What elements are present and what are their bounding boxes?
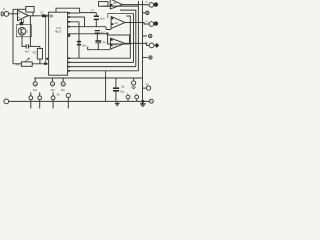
terminal bottom right [149,99,153,103]
pin 7 [68,70,70,72]
wire feedback column [45,16,47,64]
ground [116,101,118,103]
input terminal J1 [1,12,3,16]
pin number left [46,58,48,60]
potentiometer P1 [21,62,32,66]
wire input to op-amp [9,13,18,15]
wire C5 to A3 [88,47,110,50]
wire bus 2 [68,61,134,63]
diode D1 [20,22,24,25]
op-amp A0 [18,10,29,20]
marker triangle [106,33,108,35]
stub [23,19,25,23]
terminal LS1b [154,2,158,6]
svg-text:10n: 10n [51,89,56,92]
wire C3 bottom [95,20,97,27]
elcap C7 [115,78,117,87]
arrow mark [44,63,47,65]
IC1 body [49,12,68,75]
bus vertical 2 [133,14,135,63]
wire IC top [56,8,80,13]
pin 4 [68,66,70,68]
wire feedback right [32,12,34,16]
wire op-amp down to sensor [20,18,22,22]
supply rail vertical [142,1,144,104]
svg-text:10n: 10n [61,89,66,92]
wire op-amp to IC [28,15,49,17]
stub dot row3 [143,57,148,59]
wire feedback left [13,8,26,10]
svg-text:10u: 10u [100,16,105,20]
wire pin to C4 [68,33,108,35]
amp A3 [110,38,125,49]
svg-text:4u7: 4u7 [25,49,30,53]
terminal LS1 [149,3,154,8]
drop left [34,78,36,82]
svg-text:C7: C7 [91,8,95,12]
wire bus 1 [68,57,131,59]
bottom rail [9,100,149,102]
svg-text:1u: 1u [103,40,107,44]
stub Re2 [52,78,54,82]
bus vertical 3 [120,10,136,67]
svg-text:A3: A3 [114,42,118,46]
terminal P- [135,95,139,99]
capacitor C2 [26,44,28,48]
supply terminal [147,86,151,90]
svg-text:10u: 10u [120,89,125,93]
svg-text:A2: A2 [114,21,118,25]
resistor R2 [37,49,42,60]
terminal Re1 [33,82,37,86]
wire pot right to IC [32,63,48,65]
pin bubble [50,15,52,17]
pin 15 [68,16,70,18]
svg-text:A1: A1 [113,1,117,5]
pin 13 [68,26,70,28]
svg-text:P1: P1 [16,63,20,67]
wire bus 3 [68,66,136,68]
pin 2 [68,62,70,64]
terminal P+ [126,95,130,99]
terminal LS3b diamond [154,43,159,48]
svg-text:4u7: 4u7 [100,30,105,34]
svg-text:4017: 4017 [55,30,62,34]
bus vertical 1 [127,16,131,58]
pin number 16b [68,34,70,37]
terminal B2 [38,96,42,100]
ground right [142,101,144,103]
terminal LS2 [149,22,154,27]
ringdot 1 [146,11,149,14]
input terminal J2 [4,12,9,17]
transistor T1 [18,27,26,35]
svg-text:9V: 9V [146,84,149,87]
wire R2 top [39,46,41,48]
module box1 [99,2,109,7]
wire pot left [13,63,21,65]
terminal LS3 [149,43,154,48]
battery terminal [133,78,135,81]
amp A2 [111,17,125,29]
wire A3 out [125,43,149,45]
box around T1 [16,25,31,37]
stub Re3 [62,78,64,82]
pin 16 [68,12,70,14]
svg-text:C-: C- [3,7,6,11]
pin 3 [68,57,70,59]
wire C2 to R2 [29,45,40,47]
wire output to box [29,16,31,47]
resistor R1 feedback [26,7,34,13]
rail mid [34,77,142,79]
svg-text:10u: 10u [82,43,87,47]
terminal B3 [51,96,55,100]
pin 14 [68,21,70,23]
capacitor C5 [95,40,101,42]
ringdot 2 [149,34,152,37]
wire A1 out [122,4,149,6]
stub dot row2 [143,35,148,37]
terminal LS2b [154,21,158,25]
junction [32,15,33,16]
svg-text:R2: R2 [33,51,37,55]
terminal Re2 [50,82,54,86]
stub dot row1 [143,12,146,14]
terminal Re3 [61,82,65,86]
capacitor C6 [77,42,81,45]
capacitor C4 [95,31,100,34]
wire bus 4 [68,70,139,72]
svg-text:10n: 10n [33,89,38,92]
terminal B1 [29,96,33,100]
wire T1 down [22,35,26,46]
capacitor C1 on op-amp output [42,14,46,17]
ringdot 3 [149,56,152,59]
module box2 [108,14,134,19]
wire A2 out [125,23,149,25]
bus vertical 4 [137,1,139,71]
bottom right terminal [141,100,144,103]
wire vertical left rail [12,9,14,64]
amp A1 [110,0,122,9]
wire drop mid [105,71,107,102]
terminal left [4,99,9,104]
wire R2 bottom [39,59,41,64]
module box3 [108,35,130,44]
switch terminal S1 [66,93,70,97]
